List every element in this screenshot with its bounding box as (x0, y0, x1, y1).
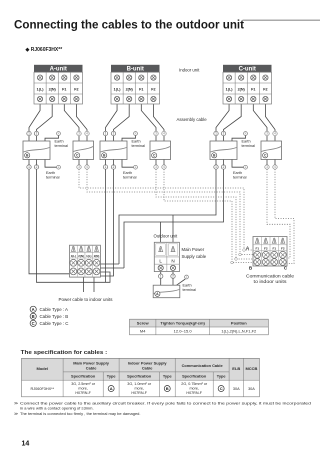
terminal block C-unit (223, 65, 272, 104)
svg-text:B: B (32, 314, 35, 319)
svg-text:4: 4 (163, 132, 165, 136)
svg-text:Outdoor unit: Outdoor unit (154, 234, 178, 239)
svg-text:2(N): 2(N) (238, 87, 246, 91)
svg-text:N: N (171, 259, 174, 264)
svg-text:H07RN-F: H07RN-F (131, 391, 147, 395)
wire stub below communication cable C (267, 160, 275, 165)
svg-text:◆ RJ060F3HX**: ◆ RJ060F3HX** (25, 47, 63, 53)
svg-text:12.0~15.0: 12.0~15.0 (174, 328, 193, 333)
svg-text:C-unit: C-unit (239, 67, 256, 73)
junction 2 below power cable C (221, 165, 225, 169)
svg-text:Specification: Specification (127, 374, 152, 379)
svg-text:terminal: terminal (132, 144, 146, 148)
junction 3 above communication cable C (265, 131, 269, 135)
svg-text:Cable Type : B: Cable Type : B (40, 314, 69, 319)
svg-text:MCCB: MCCB (245, 366, 257, 371)
wire F1 A-unit to communication cable (64, 104, 79, 141)
cable type C box (communication cable A) (73, 141, 94, 160)
svg-text:Position: Position (231, 321, 247, 326)
specification table (22, 358, 260, 397)
svg-text:The specification for cables :: The specification for cables : (21, 350, 108, 356)
node label C (284, 266, 288, 271)
wire 1(L) C-unit to power cable (216, 104, 229, 141)
svg-text:Assembly cable: Assembly cable (177, 117, 208, 122)
wire comm B F1 dashed (156, 169, 253, 259)
earth terminal A upper (45, 132, 68, 148)
cable type C box (communication cable B) (150, 141, 171, 160)
junction 1 below power cable C (214, 165, 218, 169)
svg-text:Specification: Specification (71, 374, 96, 379)
svg-text:in a wire with a contact openi: in a wire with a contact opening of ≥3mm… (20, 405, 94, 410)
svg-text:Type: Type (163, 374, 173, 379)
note 1 (14, 401, 311, 411)
svg-text:1(L),2(N),L,N,F1,F2: 1(L),2(N),L,N,F1,F2 (221, 328, 257, 333)
svg-text:2: 2 (223, 165, 225, 169)
svg-text:1(L): 1(L) (226, 87, 234, 91)
svg-text:Type: Type (107, 374, 117, 379)
junction 4 above communication cable A (85, 131, 89, 135)
svg-text:F2: F2 (281, 247, 285, 251)
svg-text:Cable Type : A: Cable Type : A (40, 307, 69, 312)
svg-text:Earth: Earth (132, 139, 141, 143)
svg-text:more,: more, (189, 387, 198, 391)
junction 3 above communication cable B (154, 131, 158, 135)
svg-text:Specification: Specification (182, 374, 207, 379)
terminal block outdoor unit L N (154, 242, 179, 271)
wire stub below power cable A (29, 160, 37, 165)
label Assembly cable (177, 117, 208, 122)
svg-text:Earth: Earth (123, 171, 132, 175)
svg-text:Earth: Earth (233, 171, 242, 175)
wire 1(L) B-unit to power cable (106, 104, 118, 141)
junction 2 below outdoor block (171, 274, 175, 278)
svg-text:2(N): 2(N) (126, 87, 134, 91)
svg-text:F1: F1 (255, 247, 259, 251)
svg-text:2: 2 (113, 132, 115, 136)
svg-text:RJ060F3HX**: RJ060F3HX** (30, 387, 54, 391)
junction 2 above power cable C (221, 131, 225, 135)
wire stub power block bottom 1 (83, 277, 85, 292)
svg-text:Screw: Screw (137, 321, 150, 326)
svg-text:H07RN-F: H07RN-F (75, 391, 91, 395)
svg-text:terminal: terminal (242, 144, 256, 148)
earth terminal A lower (45, 160, 60, 180)
svg-text:F2: F2 (263, 87, 267, 91)
wire comm A F2 dashed (87, 169, 253, 254)
svg-text:2: 2 (36, 132, 38, 136)
svg-text:30A: 30A (233, 387, 240, 391)
wire F1 C-unit to communication cable (253, 104, 267, 141)
svg-text:1: 1 (215, 165, 217, 169)
junction 3 above communication cable A (77, 131, 81, 135)
wire stub below communication cable B (156, 160, 164, 165)
svg-text:14: 14 (22, 441, 30, 448)
legend cable type B (30, 313, 68, 319)
svg-text:Communication cable: Communication cable (246, 274, 295, 279)
svg-text:Connecting the cables to the o: Connecting the cables to the outdoor uni… (14, 17, 244, 31)
svg-text:L: L (159, 259, 162, 264)
svg-text:terminal: terminal (183, 288, 197, 292)
wire F1 B-unit to communication cable (141, 104, 156, 141)
earth terminal outdoor (177, 275, 197, 292)
junction 1 above power cable C (214, 131, 218, 135)
junction 3 below communication cable A (77, 165, 81, 169)
svg-text:4: 4 (86, 165, 88, 169)
svg-text:4: 4 (86, 132, 88, 136)
node label B (249, 266, 253, 271)
svg-text:1: 1 (28, 165, 30, 169)
svg-text:2(N): 2(N) (49, 87, 57, 91)
svg-text:F1: F1 (251, 87, 255, 91)
svg-text:3: 3 (266, 165, 268, 169)
wire stub below power cable B (106, 160, 114, 165)
wire F2 A-unit to communication cable (76, 104, 87, 141)
svg-text:B: B (166, 386, 169, 391)
wire A-unit 2(N) down and under power block (37, 169, 111, 282)
svg-text:2(N): 2(N) (78, 254, 84, 258)
svg-text:more,: more, (134, 387, 143, 391)
wire B-unit 2(N) down to power block (100, 169, 113, 276)
node label A (246, 245, 250, 250)
wire stub below communication cable A (79, 160, 87, 165)
svg-text:Earth: Earth (55, 139, 64, 143)
svg-text:A-unit: A-unit (50, 67, 67, 73)
svg-text:3: 3 (78, 165, 80, 169)
svg-text:terminal: terminal (55, 144, 69, 148)
junction 1 below power cable A (27, 165, 31, 169)
junction 4 below communication cable A (85, 165, 89, 169)
svg-text:3: 3 (78, 132, 80, 136)
cable type B box (power cable A) (23, 141, 50, 160)
svg-text:The terminal is connected too: The terminal is connected too firmly , t… (20, 411, 141, 416)
svg-text:3G, 1.0mm² or: 3G, 1.0mm² or (127, 382, 152, 386)
svg-text:4: 4 (274, 165, 276, 169)
svg-text:1: 1 (105, 132, 107, 136)
junction 2 below power cable A (34, 165, 38, 169)
svg-text:≫: ≫ (14, 411, 18, 416)
wire net N run (lower horizontal) (124, 169, 224, 268)
legend cable type A (30, 306, 68, 312)
wire comm B F2 dashed (164, 169, 253, 262)
svg-text:≫: ≫ (14, 401, 18, 406)
svg-text:3: 3 (155, 132, 157, 136)
caption Power cable to indoor units (59, 297, 113, 302)
svg-text:F2: F2 (74, 87, 78, 91)
terminal block power cable to indoor units (70, 245, 101, 277)
svg-text:Type: Type (217, 374, 227, 379)
svg-text:Communication Cable: Communication Cable (182, 363, 224, 368)
wire outdoor L to cable A (160, 272, 162, 286)
wire comm A F1 dashed (79, 169, 253, 250)
svg-text:Main Power: Main Power (182, 247, 205, 252)
junction 1 above power cable B (103, 131, 107, 135)
svg-text:2: 2 (223, 132, 225, 136)
svg-text:F2: F2 (264, 247, 268, 251)
legend cable type C (30, 320, 68, 326)
svg-text:1(L): 1(L) (37, 87, 45, 91)
svg-text:A: A (110, 386, 113, 391)
wire outdoor L from net (160, 222, 162, 242)
svg-text:3: 3 (266, 132, 268, 136)
svg-text:1: 1 (105, 165, 107, 169)
svg-text:1(L): 1(L) (71, 254, 76, 258)
page title (14, 17, 244, 31)
svg-text:2(N): 2(N) (94, 254, 100, 258)
junction 4 below communication cable B (162, 165, 166, 169)
svg-text:2: 2 (172, 274, 174, 278)
earth terminal B lower (122, 160, 137, 180)
label Main Power Supply cable (182, 247, 207, 259)
svg-text:1(L): 1(L) (114, 87, 122, 91)
junction 3 below communication cable C (265, 165, 269, 169)
caption Communication cable to indoor units (246, 274, 295, 284)
junction 4 above communication cable B (162, 131, 166, 135)
svg-text:Cable: Cable (142, 365, 153, 370)
svg-text:Power cable to indoor units: Power cable to indoor units (59, 297, 113, 302)
svg-text:F2: F2 (151, 87, 155, 91)
wire 2(N) A-unit to power cable (37, 104, 53, 141)
svg-text:F1: F1 (139, 87, 143, 91)
terminal block communication to indoor units (253, 237, 287, 267)
screw torque table (130, 319, 269, 335)
svg-text:1: 1 (28, 132, 30, 136)
svg-text:terminal: terminal (233, 175, 247, 179)
junction 2 above power cable B (111, 131, 115, 135)
spec table title (21, 350, 108, 356)
cable type B box (power cable B) (100, 141, 127, 160)
page number (22, 441, 30, 448)
junction 1 below power cable B (103, 165, 107, 169)
junction 2 below power cable B (111, 165, 115, 169)
svg-text:terminal: terminal (123, 175, 137, 179)
svg-text:C: C (32, 321, 35, 326)
svg-text:2: 2 (113, 165, 115, 169)
svg-text:Tighten Torque(kgf-cm): Tighten Torque(kgf-cm) (160, 321, 205, 326)
wire stub below power cable C (216, 160, 224, 165)
svg-text:4: 4 (163, 165, 165, 169)
svg-text:Supply cable: Supply cable (182, 254, 207, 259)
header rule top right (243, 19, 320, 21)
wire comm C F1 dashed (267, 169, 290, 258)
wire F2 B-unit to communication cable (153, 104, 164, 141)
terminal block A-unit (34, 65, 83, 104)
svg-text:3: 3 (155, 165, 157, 169)
wire B-unit 1(L) down to power block (105, 169, 107, 282)
svg-text:Model: Model (37, 366, 49, 371)
junction nodes comm entries (231, 249, 246, 264)
wire outdoor N to cable A (172, 272, 174, 286)
svg-text:B-unit: B-unit (127, 67, 144, 73)
earth terminal B upper (122, 132, 145, 148)
wire stub power block bottom 2 (93, 277, 95, 292)
label Outdoor unit (154, 234, 178, 239)
junction 1 above power cable A (27, 131, 31, 135)
junction 1 below outdoor block (159, 274, 163, 278)
wire F2 C-unit to communication cable (265, 104, 275, 141)
svg-text:H07RN-F: H07RN-F (186, 391, 202, 395)
wire 2(N) C-unit to power cable (224, 104, 242, 141)
earth terminal C lower (232, 160, 247, 180)
svg-text:F1: F1 (272, 247, 276, 251)
svg-text:C: C (220, 386, 223, 391)
svg-text:more,: more, (78, 387, 87, 391)
svg-text:ELB: ELB (232, 366, 240, 371)
wire 1(L) A-unit to power cable (29, 104, 40, 141)
note 2 (14, 411, 141, 416)
svg-text:1: 1 (160, 274, 162, 278)
svg-text:Earth: Earth (183, 283, 192, 287)
junction 4 above communication cable C (273, 131, 277, 135)
svg-text:A: A (32, 307, 35, 312)
svg-text:Earth: Earth (242, 139, 251, 143)
svg-text:2: 2 (36, 165, 38, 169)
wire net L run (upper horizontal) (119, 169, 216, 264)
label Indoor unit (179, 68, 200, 73)
svg-text:1(L): 1(L) (86, 254, 91, 258)
svg-text:Indoor unit: Indoor unit (179, 68, 200, 73)
junction 3 below communication cable B (154, 165, 158, 169)
cable type B box (power cable C) (210, 141, 237, 160)
model label RJ060F3HX (25, 47, 63, 53)
svg-text:30A: 30A (248, 387, 255, 391)
cable type A box (main power) (153, 285, 180, 298)
svg-text:to indoor units: to indoor units (254, 279, 288, 284)
svg-text:terminal: terminal (46, 175, 60, 179)
svg-text:Cable: Cable (86, 365, 97, 370)
junction 4 below communication cable C (273, 165, 277, 169)
svg-text:4: 4 (274, 132, 276, 136)
junction 2 above power cable A (34, 131, 38, 135)
wire into power block right lower (100, 267, 124, 269)
wire outdoor N from net (172, 215, 174, 242)
svg-text:2G, 0.75mm² or: 2G, 0.75mm² or (181, 382, 208, 386)
svg-text:1: 1 (215, 132, 217, 136)
terminal block B-unit (111, 65, 160, 104)
cable type C box (communication cable C) (261, 141, 282, 160)
svg-text:M4: M4 (140, 328, 146, 333)
svg-text:Earth: Earth (46, 171, 55, 175)
svg-text:3G, 2.5mm² or: 3G, 2.5mm² or (71, 382, 96, 386)
wire comm C F2 dashed (275, 169, 294, 263)
earth terminal C upper (232, 132, 255, 148)
wire A-unit 1(L) down to power block (29, 169, 70, 274)
wire 2(N) B-unit to power cable (114, 104, 130, 141)
svg-text:Cable Type : C: Cable Type : C (40, 321, 69, 326)
wire into power block right upper (100, 263, 119, 265)
svg-text:F1: F1 (62, 87, 66, 91)
